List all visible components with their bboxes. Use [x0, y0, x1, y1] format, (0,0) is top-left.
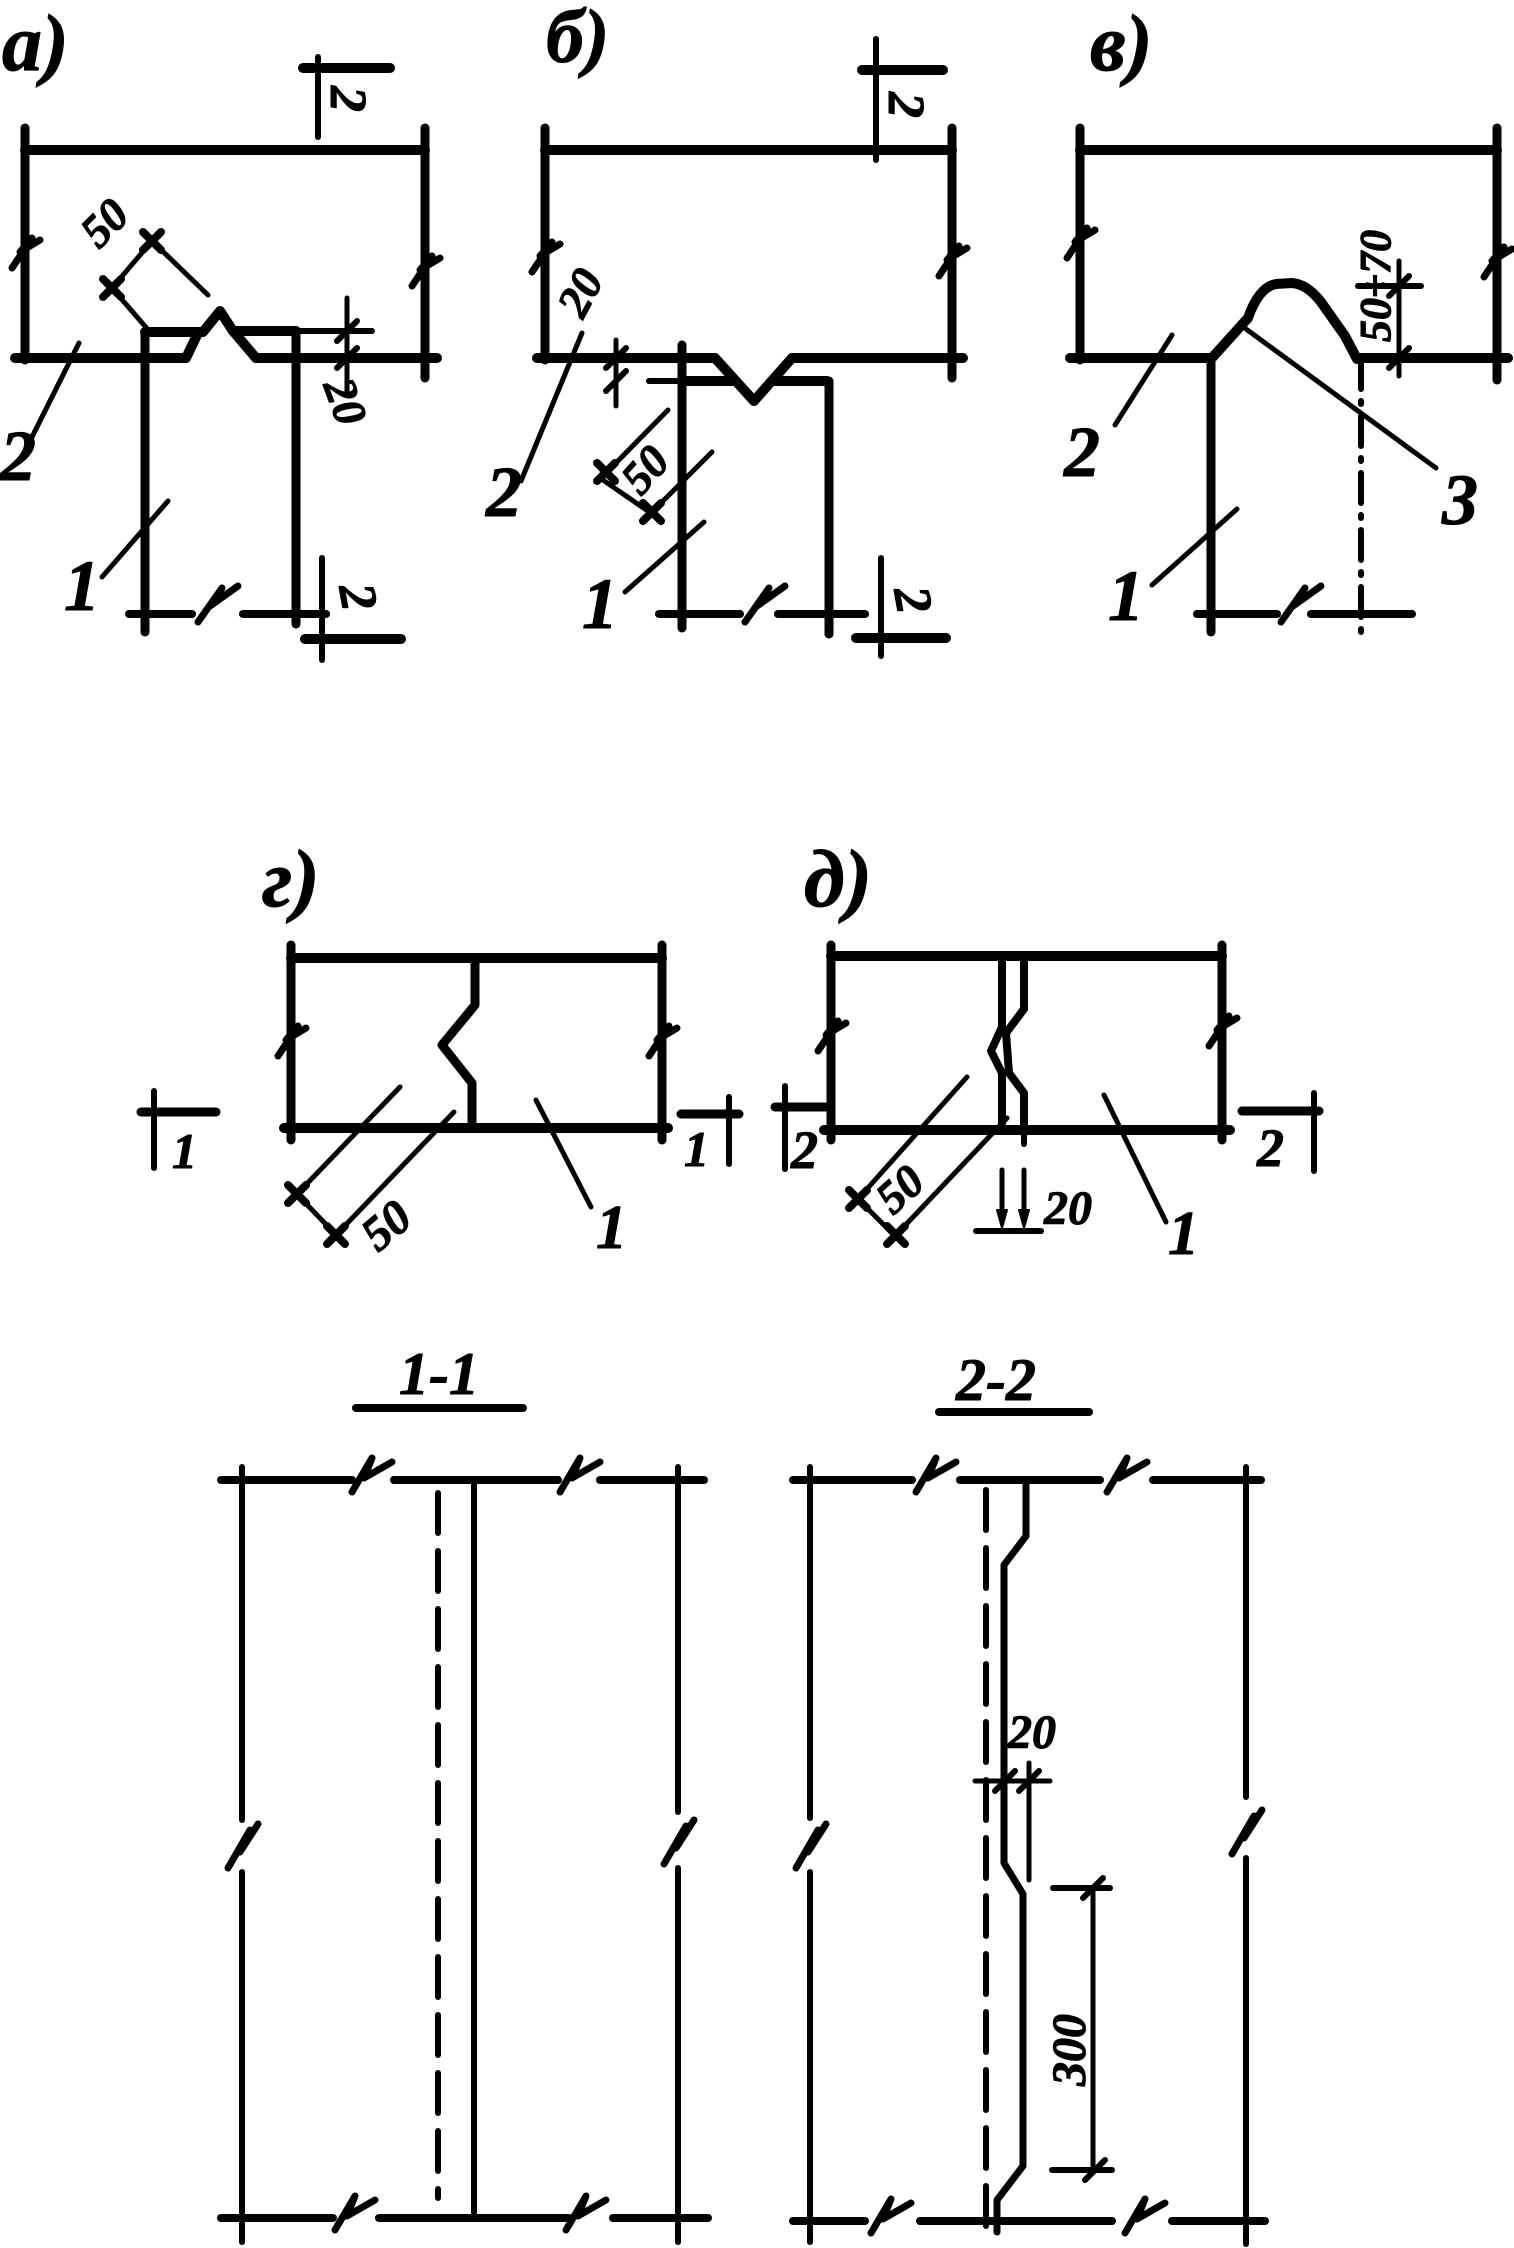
bottom line: [221, 2214, 333, 2222]
svg-text:1: 1: [1108, 556, 1144, 636]
pocket diagonal left: [186, 333, 198, 358]
panel 1 bottom line: [1197, 610, 1277, 618]
panel 1 bottom line: [659, 610, 740, 618]
svg-text:20: 20: [1007, 1706, 1056, 1759]
break mark left vertical: [228, 1824, 258, 1868]
dashed middle line: [983, 1490, 989, 2230]
bottom line: [793, 2217, 865, 2225]
panel 2 outline: [25, 145, 425, 155]
leader + label 3: [1246, 329, 1436, 468]
panel 1 left wall: [1207, 359, 1216, 632]
svg-text:2: 2: [877, 91, 934, 118]
break mark bottom: [1281, 586, 1321, 622]
panel 1 right wall: [825, 381, 834, 634]
pocket diagonal right: [233, 331, 256, 358]
break marks top line: [352, 1458, 392, 1492]
bump joint: [1211, 283, 1357, 359]
break mark right edge: [649, 1026, 677, 1056]
leader + label 1: [625, 522, 704, 592]
V notch: [715, 358, 792, 401]
leader + label 1: [102, 501, 168, 577]
jogged solid line: [997, 1483, 1026, 2232]
break mark right edge: [939, 246, 967, 276]
break mark bottom: [745, 586, 785, 622]
joint line right: [1006, 960, 1024, 1128]
svg-text:2: 2: [1063, 412, 1100, 492]
svg-text:300: 300: [1043, 2014, 1096, 2087]
break mark left edge: [818, 1021, 846, 1051]
dashed middle line: [435, 1493, 441, 2198]
section mark 2 (left): [782, 1086, 788, 1169]
section mark 2 (bottom): [878, 558, 884, 656]
section mark 1 (left): [151, 1091, 157, 1168]
break mark bottom: [198, 586, 238, 622]
svg-text:1: 1: [1168, 1200, 1199, 1268]
svg-text:2: 2: [1256, 1118, 1284, 1178]
right vertical: [1243, 1467, 1249, 1797]
svg-text:50÷70: 50÷70: [1351, 230, 1400, 342]
panel 1 bottom line: [129, 610, 192, 618]
break mark left edge: [278, 1026, 306, 1056]
joint zigzag: [442, 958, 475, 1128]
break mark right vertical: [1232, 1810, 1262, 1854]
section mark 2 (top): [873, 39, 879, 160]
svg-text:2: 2: [0, 416, 36, 496]
groove with peak: [145, 311, 296, 332]
dim 50 line with X ticks: [290, 1187, 343, 1242]
dim 20 (left): [649, 378, 684, 384]
break marks bottom line: [871, 2199, 911, 2233]
joint line tick below: [1021, 1130, 1027, 1144]
break mark left vertical: [796, 1824, 826, 1868]
dim 300: [1091, 1890, 1096, 2168]
panel 1 left wall: [678, 345, 687, 628]
svg-text:б): б): [546, 0, 609, 79]
panel 2 outline: [1080, 145, 1497, 155]
panel rectangle: [291, 953, 662, 963]
svg-text:д): д): [804, 833, 872, 924]
panel rectangle: [831, 951, 1222, 961]
break mark right edge: [412, 256, 440, 286]
break mark left edge: [532, 242, 560, 272]
break mark left edge: [12, 238, 40, 268]
leader + label 1: [1152, 509, 1237, 585]
dim 20 arrows: [1000, 1170, 1005, 1222]
panel 1 top face: [682, 376, 733, 386]
leader + label 2: [521, 333, 582, 481]
svg-text:3: 3: [1441, 460, 1478, 540]
svg-text:2-2: 2-2: [955, 1347, 1036, 1413]
dim 20 (right of joint): [300, 328, 372, 334]
svg-text:1: 1: [172, 1123, 197, 1179]
svg-text:1-1: 1-1: [399, 1341, 479, 1407]
break marks top line: [916, 1458, 956, 1492]
top line: [793, 1476, 912, 1484]
svg-text:2: 2: [790, 1120, 818, 1180]
dim 50 line with X ticks: [600, 478, 658, 518]
svg-text:в): в): [1090, 0, 1152, 88]
section mark 2 (top): [315, 57, 321, 137]
svg-text:г): г): [262, 833, 320, 924]
panel 1 left wall: [141, 332, 150, 632]
svg-text:1: 1: [596, 1194, 627, 1262]
top line: [221, 1476, 352, 1484]
dim 50 line with X ticks: [851, 1192, 903, 1244]
left vertical: [807, 1467, 813, 1818]
leader + label 1: [536, 1100, 591, 1207]
leader + label 1: [1104, 1095, 1166, 1222]
leader + label 2: [31, 343, 79, 439]
dim 50 line with X ticks: [105, 233, 159, 296]
break marks bottom line: [335, 2196, 375, 2230]
break mark right edge: [1484, 247, 1512, 277]
break mark right vertical: [664, 1820, 694, 1864]
section mark 1 (right): [726, 1097, 732, 1164]
panel 1 right wall: [292, 331, 301, 624]
svg-text:2: 2: [319, 85, 376, 112]
section mark 2 (right): [1311, 1093, 1317, 1171]
svg-text:а): а): [2, 0, 69, 88]
svg-text:2: 2: [485, 452, 522, 532]
right vertical: [675, 1467, 681, 1812]
break mark left edge: [1067, 228, 1095, 258]
break mark right edge: [1209, 1016, 1237, 1046]
svg-text:20: 20: [1043, 1182, 1092, 1235]
panel 1 axis dash-dot: [1358, 359, 1364, 633]
svg-text:1: 1: [64, 546, 100, 626]
panel 2 outline: [545, 145, 952, 155]
dim 20: [975, 1779, 1050, 1784]
dim 50-70: [1397, 261, 1402, 376]
joint line left: [991, 960, 1002, 1128]
left vertical: [239, 1467, 245, 1820]
solid middle line: [471, 1482, 477, 2218]
svg-text:1: 1: [582, 564, 618, 644]
section mark 2 (bottom): [319, 558, 325, 660]
leader + label 2: [1115, 335, 1172, 425]
svg-text:1: 1: [684, 1121, 709, 1177]
